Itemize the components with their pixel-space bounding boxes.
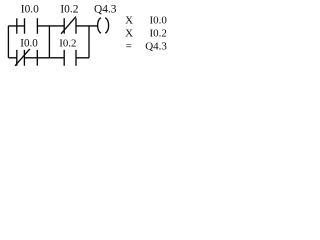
svg-text:Q4.3: Q4.3 [94,4,117,16]
svg-text:I0.0: I0.0 [21,4,39,16]
node: branch bar on top rung [16,18,18,33]
svg-text:=: = [126,40,132,52]
wire: middle vertical connector between rungs [48,26,50,58]
wire: bottom rung segments [8,57,89,59]
contact I0.2 (NC) top rung: bars [64,18,76,33]
wire: left power rail [7,26,9,58]
coil Q4.3: left parenthesis [98,18,101,34]
contact I0.2 (NO) bottom rung: bars [64,50,76,66]
svg-text:I0.0: I0.0 [20,37,38,49]
coil Q4.3: right parenthesis [105,18,108,34]
wire: right vertical connector (branch join before coil) [88,26,90,58]
svg-text:I0.2: I0.2 [60,4,78,16]
svg-text:Q4.3: Q4.3 [145,40,167,52]
svg-text:I0.2: I0.2 [59,37,76,49]
svg-text:X: X [125,27,133,39]
contact I0.0 (NC) bottom rung: bars [17,50,25,66]
svg-text:X: X [125,14,133,26]
node: branch bar on bottom rung [36,50,38,66]
wire: top rung segments [8,25,97,27]
svg-text:I0.2: I0.2 [149,27,166,39]
contact I0.0 (NO) top rung: bars [25,18,38,33]
svg-text:I0.0: I0.0 [149,14,167,26]
contact I0.2 (NC) top rung: slash [61,17,76,34]
contact I0.0 (NC) bottom rung: slash [15,49,30,66]
